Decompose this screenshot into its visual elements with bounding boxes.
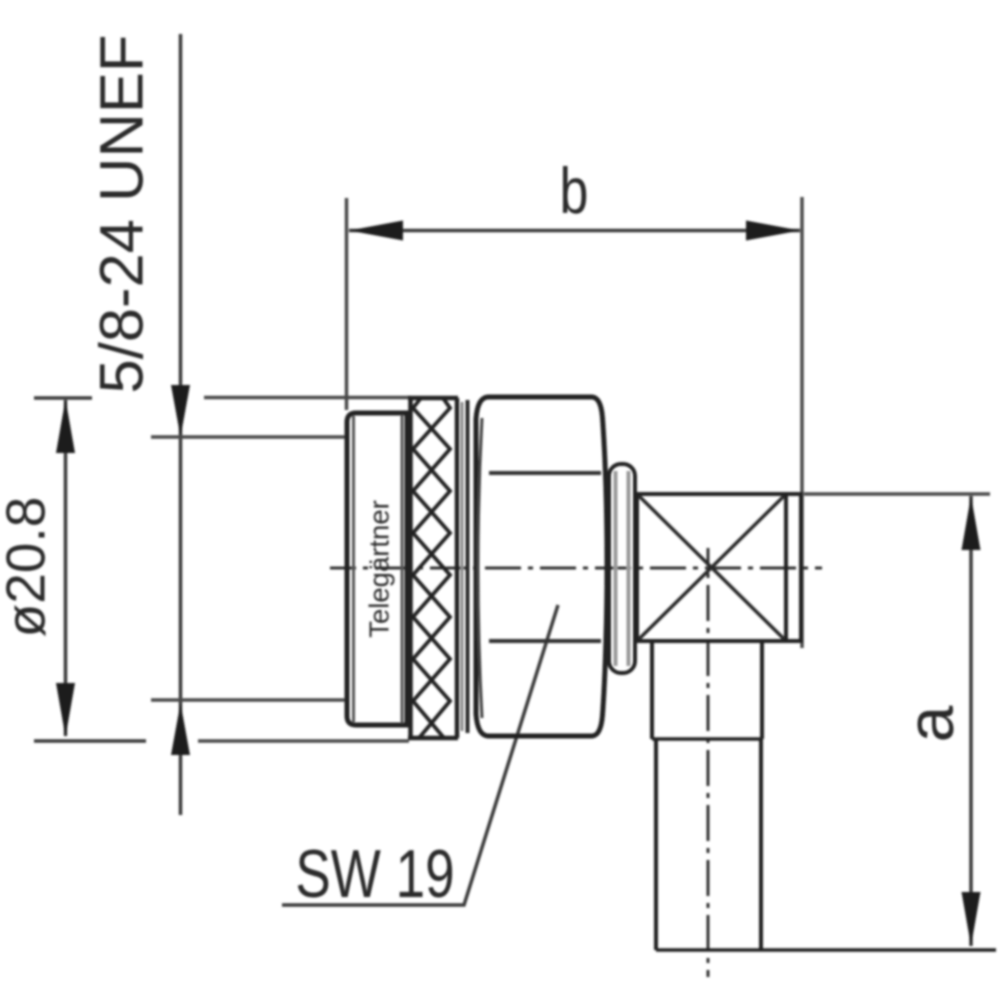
centerline vertical — [707, 548, 710, 977]
tube step line — [652, 737, 762, 741]
arrow up dia20.8 — [56, 399, 75, 453]
tube bottom edge and extension — [656, 948, 996, 952]
svg-text:a: a — [893, 705, 967, 742]
extension line thread bottom — [151, 698, 345, 702]
washer line gray — [461, 402, 464, 731]
extension line a top — [804, 492, 990, 496]
diagonal brace 1 — [639, 496, 784, 639]
svg-text:5/8-24 UNEF: 5/8-24 UNEF — [88, 35, 157, 394]
knurl zigzag wave A — [413, 398, 450, 738]
tick dia20.8 bottom left — [34, 739, 146, 743]
cap inner right line — [401, 415, 404, 723]
knurl ring outline — [408, 398, 458, 738]
dimension line a — [969, 496, 973, 946]
dimension line b — [349, 229, 800, 233]
washer line dark — [466, 400, 470, 733]
arrow right b — [746, 221, 800, 241]
extension line knurl top — [204, 396, 410, 400]
body face line — [784, 494, 788, 641]
gasket ring shading right — [627, 471, 631, 666]
hex chamfer line top — [489, 471, 601, 475]
upper tube right edge — [760, 641, 764, 739]
extension line thread top — [151, 435, 345, 439]
arrow down 5/8 top — [171, 385, 190, 437]
arrow down dia20.8 — [56, 683, 75, 737]
hex nut silhouette — [476, 397, 607, 736]
extension line knurl bottom — [198, 739, 409, 743]
svg-text:ø20.8: ø20.8 — [0, 497, 56, 638]
upper tube left edge — [650, 641, 654, 739]
arrow up a — [962, 496, 981, 550]
dimension line dia 20.8 — [64, 400, 68, 736]
gasket ring shading left — [614, 471, 618, 666]
arrow left b — [349, 221, 403, 241]
gasket ring capsule — [609, 464, 635, 673]
cap inner left line — [352, 416, 355, 722]
coupling nut cap body — [347, 413, 407, 725]
lower tube right edge — [759, 739, 763, 950]
svg-text:b: b — [560, 156, 589, 228]
leader line SW 19 — [282, 605, 558, 905]
tick dia20.8 top — [34, 396, 92, 400]
hex flat boundary arc — [478, 418, 482, 718]
dimension line 5/8-24 UNEF — [179, 34, 183, 815]
hex chamfer line bottom — [489, 639, 601, 643]
knurl zigzag wave B — [413, 398, 450, 738]
lower tube left edge — [654, 739, 658, 950]
diagonal brace 2 — [639, 496, 784, 639]
extension line b left — [345, 198, 349, 410]
arrow down a — [962, 892, 981, 946]
centerline horizontal — [330, 567, 822, 570]
right angle body block — [637, 494, 801, 641]
arrow up 5/8 bottom — [171, 703, 190, 755]
svg-text:SW 19: SW 19 — [295, 836, 454, 912]
extension line b right — [800, 197, 804, 648]
svg-text:Telegärtner: Telegärtner — [364, 500, 395, 638]
